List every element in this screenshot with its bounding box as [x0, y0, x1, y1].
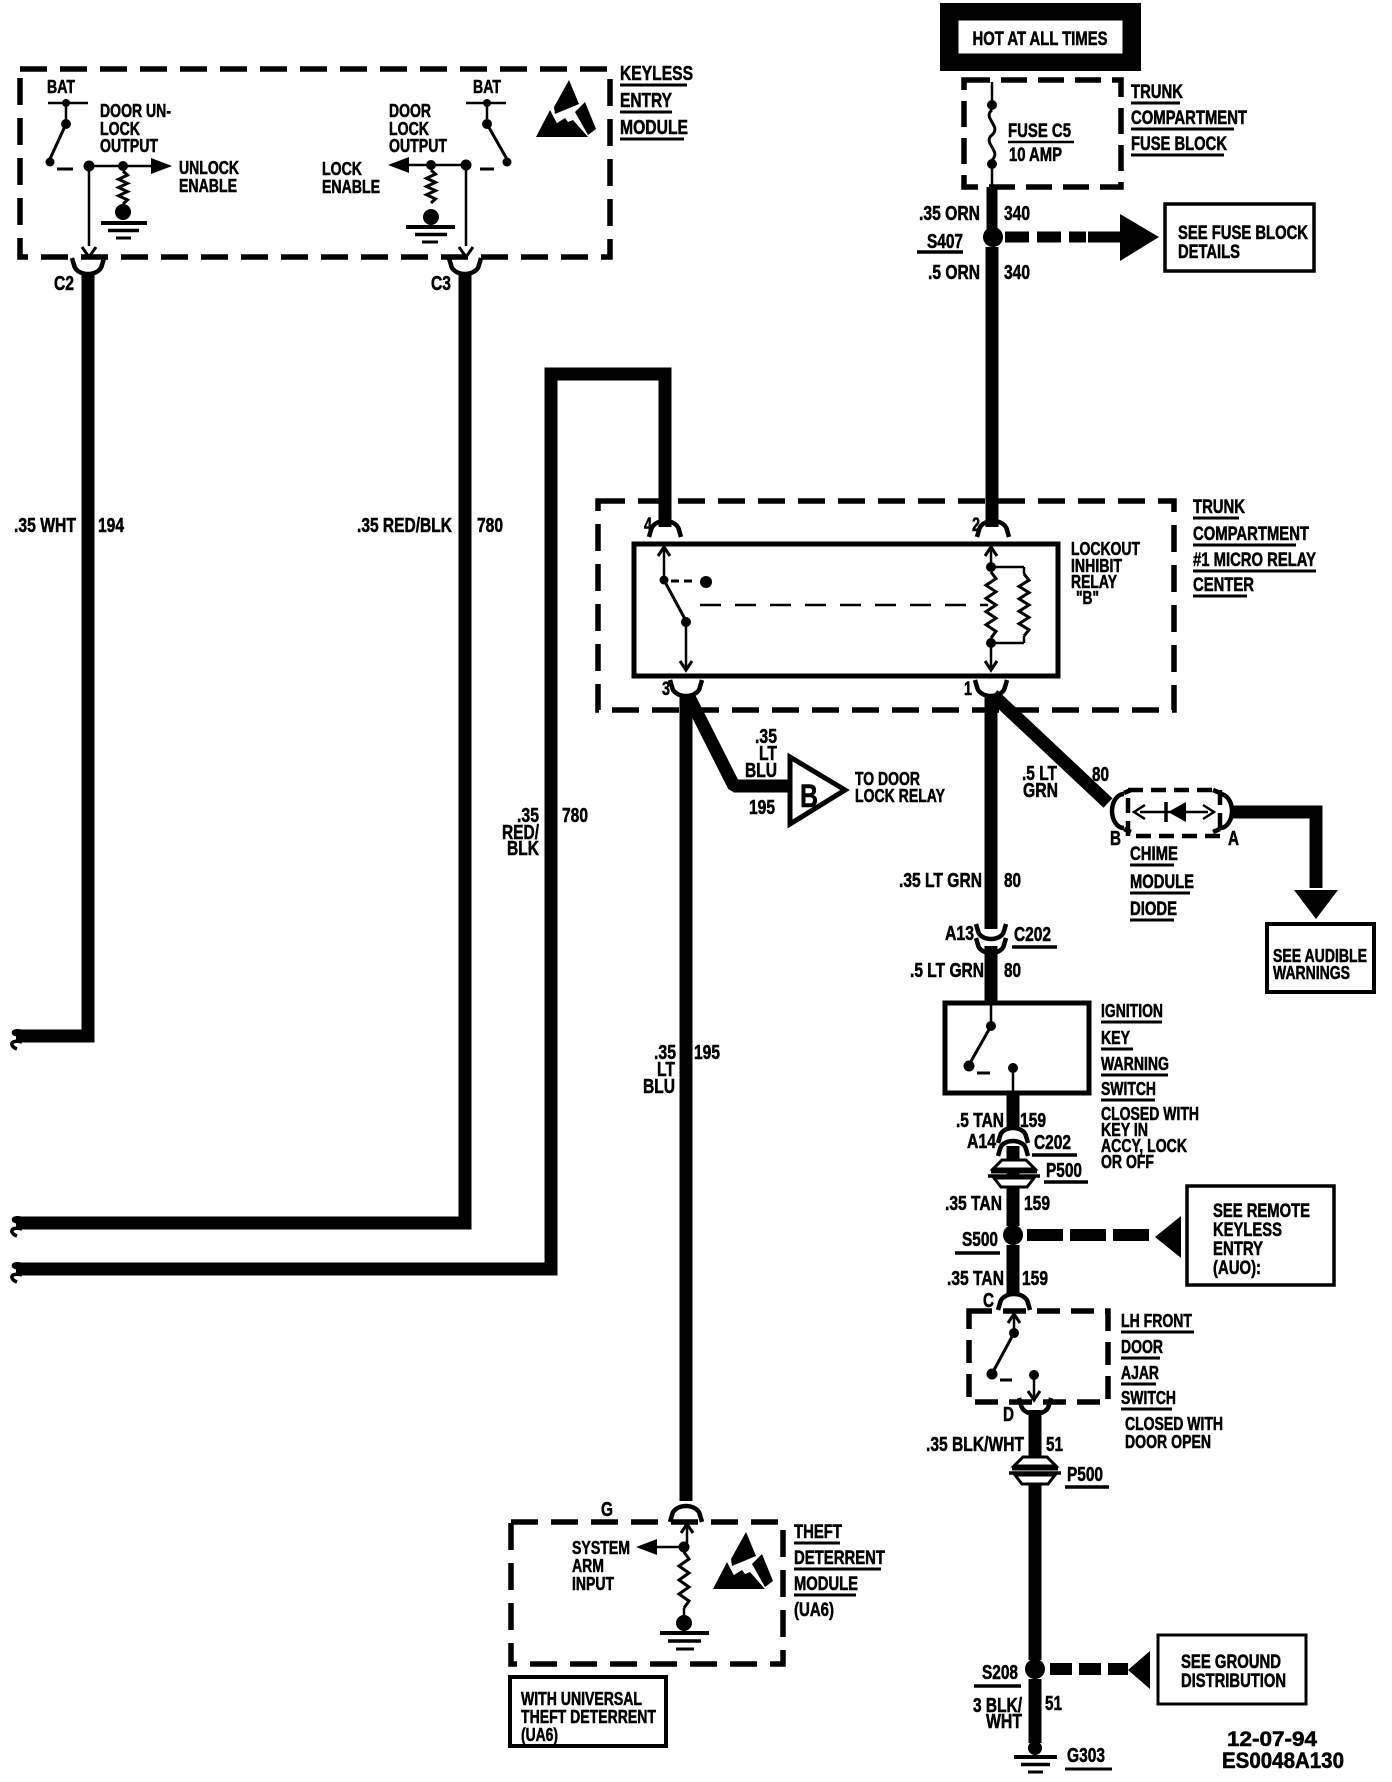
- label door lock output: [389, 101, 447, 156]
- ignition key warning switch: [964, 1005, 1019, 1091]
- wire 159 (switch to C202 A14): [1007, 1093, 1020, 1129]
- connector C202 A14: [967, 1128, 1077, 1156]
- svg-text:2: 2: [972, 515, 980, 536]
- svg-text:SEE FUSE BLOCK: SEE FUSE BLOCK: [1178, 223, 1308, 244]
- keyless entry module label: [620, 63, 693, 139]
- hot at all times box: [940, 3, 1141, 71]
- svg-text:DOOR OPEN: DOOR OPEN: [1125, 1432, 1211, 1452]
- svg-text:.5 LT GRN: .5 LT GRN: [910, 960, 984, 982]
- svg-text:4: 4: [644, 515, 652, 536]
- relay coil: [985, 547, 1029, 670]
- label .5 LT GRN 80: [910, 960, 1021, 982]
- relay pin 4 connector: [644, 515, 681, 537]
- svg-text:FUSE C5: FUSE C5: [1008, 121, 1071, 142]
- splice S500: [955, 1225, 1023, 1253]
- grommet P500 (upper): [988, 1160, 1088, 1187]
- label lockout inhibit relay B: [1071, 539, 1140, 608]
- label theft deterrent module UA6: [794, 1522, 885, 1621]
- wire 80 (pin 1 to chime diode): [993, 695, 1108, 803]
- label unlock enable: [179, 158, 239, 196]
- label .35 TAN 159 (above S500): [945, 1193, 1050, 1215]
- svg-text:B: B: [800, 778, 818, 814]
- trunk compartment fuse block box: [964, 80, 1121, 187]
- label closed with door open: [1125, 1414, 1223, 1452]
- label trunk compartment #1 micro relay center: [1193, 497, 1316, 596]
- label .35 TAN 159 (below S500): [947, 1268, 1048, 1290]
- chime diode connector A: [1213, 790, 1239, 850]
- svg-text:INPUT: INPUT: [572, 1574, 614, 1594]
- label ignition key warning switch: [1101, 1001, 1169, 1100]
- audible warnings arrow: [1294, 890, 1338, 919]
- chime module diode: [1134, 802, 1214, 822]
- off-page connector B triangle: [790, 757, 845, 824]
- svg-text:OR OFF: OR OFF: [1101, 1152, 1154, 1172]
- svg-text:DETAILS: DETAILS: [1178, 242, 1240, 263]
- svg-text:SEE REMOTE: SEE REMOTE: [1213, 1201, 1310, 1222]
- svg-text:WHT: WHT: [986, 1711, 1022, 1733]
- svg-text:TRUNK: TRUNK: [1193, 497, 1245, 518]
- svg-text:195: 195: [749, 797, 775, 819]
- label .35 RED/BLK 780: [357, 515, 503, 537]
- theft deterrent module internals: [636, 1524, 709, 1649]
- see audible warnings box: [1267, 924, 1374, 992]
- svg-text:80: 80: [1004, 870, 1021, 892]
- svg-text:FUSE BLOCK: FUSE BLOCK: [1131, 134, 1227, 155]
- connector D: [1003, 1398, 1051, 1426]
- svg-text:BLU: BLU: [643, 1076, 675, 1098]
- svg-text:MODULE: MODULE: [1130, 872, 1194, 893]
- svg-text:OUTPUT: OUTPUT: [100, 136, 158, 156]
- svg-text:SWITCH: SWITCH: [1101, 1079, 1156, 1099]
- see fuse block details box: [1165, 204, 1314, 271]
- connector C (door ajar): [983, 1290, 1030, 1312]
- svg-text:CLOSED WITH: CLOSED WITH: [1125, 1414, 1223, 1434]
- svg-text:A14: A14: [967, 1131, 997, 1153]
- relay actuator dashed link: [700, 604, 988, 607]
- splice S407: [917, 227, 1003, 253]
- label trunk compartment fuse block: [1131, 82, 1247, 155]
- svg-text:340: 340: [1004, 203, 1030, 225]
- svg-text:S407: S407: [927, 231, 963, 253]
- connector C202 A13: [945, 923, 1057, 953]
- svg-text:IGNITION: IGNITION: [1101, 1001, 1163, 1021]
- wire 80 (C202 to ignition switch): [985, 946, 998, 1002]
- svg-text:SYSTEM: SYSTEM: [572, 1538, 630, 1558]
- svg-text:B: B: [1110, 828, 1121, 850]
- svg-text:159: 159: [1024, 1193, 1050, 1215]
- svg-text:BLU: BLU: [745, 760, 777, 782]
- svg-text:ENABLE: ENABLE: [322, 177, 380, 197]
- svg-text:CENTER: CENTER: [1193, 575, 1254, 596]
- theft deterrent module box: [511, 1522, 783, 1664]
- svg-text:WARNING: WARNING: [1101, 1054, 1169, 1074]
- with universal theft deterrent box: [510, 1677, 666, 1746]
- wire node to C2: [82, 171, 96, 257]
- wire 780 (C3 to page edge): [12, 272, 465, 1236]
- svg-text:3: 3: [662, 679, 670, 700]
- wire 51 (P500 to S208): [1029, 1484, 1042, 1660]
- label fuse C5 10 amp: [1008, 121, 1074, 166]
- svg-text:DISTRIBUTION: DISTRIBUTION: [1181, 1671, 1286, 1692]
- ground (keyless module left): [101, 204, 147, 238]
- svg-text:ENTRY: ENTRY: [620, 90, 673, 112]
- wire 159 (A14 to S500): [1007, 1146, 1020, 1226]
- lockout inhibit relay outline: [634, 544, 1058, 676]
- label .5 LT GRN 80 (diagonal): [1022, 763, 1109, 802]
- wire 51 (S208 to G303): [1029, 1679, 1042, 1743]
- svg-text:G: G: [601, 1499, 613, 1521]
- label system arm input: [572, 1538, 630, 1594]
- svg-text:S208: S208: [982, 1662, 1018, 1684]
- svg-text:P500: P500: [1046, 1160, 1082, 1182]
- plate date and code: [1222, 1728, 1344, 1773]
- relay pin 3 connector: [662, 679, 702, 700]
- svg-text:159: 159: [1020, 1110, 1046, 1132]
- BAT terminal (unlock side): [47, 77, 88, 107]
- wire 159 (S500 to door ajar switch): [1007, 1245, 1020, 1296]
- svg-text:(AUO):: (AUO):: [1213, 1258, 1261, 1279]
- svg-text:195: 195: [694, 1042, 720, 1064]
- wire 51 (D to P500): [1029, 1410, 1042, 1460]
- svg-text:MODULE: MODULE: [620, 117, 688, 139]
- wire 195 (pin 3 to theft module): [680, 695, 693, 1501]
- svg-text:COMPARTMENT: COMPARTMENT: [1193, 524, 1309, 545]
- svg-text:DETERRENT: DETERRENT: [794, 1548, 885, 1569]
- svg-text:WITH UNIVERSAL: WITH UNIVERSAL: [521, 1689, 642, 1709]
- svg-text:BAT: BAT: [47, 77, 75, 97]
- svg-text:340: 340: [1004, 262, 1030, 284]
- svg-text:DOOR UN-: DOOR UN-: [100, 101, 171, 121]
- svg-text:ES0048A130: ES0048A130: [1222, 1748, 1344, 1773]
- svg-text:OUTPUT: OUTPUT: [389, 136, 447, 156]
- svg-text:KEYLESS: KEYLESS: [1213, 1220, 1282, 1241]
- label to door lock relay: [855, 769, 945, 806]
- node / unlock enable arrow: [84, 158, 173, 174]
- svg-text:(UA6): (UA6): [521, 1725, 558, 1745]
- svg-text:10 AMP: 10 AMP: [1009, 145, 1062, 166]
- svg-text:TRUNK: TRUNK: [1131, 82, 1183, 103]
- wire 80 (pin 1 to C202): [985, 695, 998, 929]
- svg-text:DIODE: DIODE: [1130, 899, 1177, 920]
- ignition key warning switch box: [945, 1003, 1089, 1093]
- svg-text:KEYLESS: KEYLESS: [620, 63, 693, 85]
- svg-text:.35 ORN: .35 ORN: [919, 203, 980, 225]
- switch SW-unlock (door unlock output): [46, 103, 74, 169]
- see ground distribution box: [1158, 1635, 1306, 1704]
- label .35 WHT 194: [14, 515, 125, 537]
- svg-text:G303: G303: [1067, 1745, 1105, 1767]
- svg-text:.35 TAN: .35 TAN: [945, 1193, 1002, 1215]
- label 3 BLK/WHT 51: [973, 1693, 1062, 1733]
- wire 780 (relay pin 4 to page edge): [12, 374, 665, 1282]
- svg-text:GRN: GRN: [1023, 780, 1058, 802]
- svg-text:80: 80: [1092, 764, 1109, 786]
- svg-text:AJAR: AJAR: [1121, 1363, 1159, 1383]
- see ground distribution arrow: [1050, 1651, 1150, 1689]
- label .35 LT BLU 195 (main): [643, 1042, 720, 1098]
- grommet P500 (lower): [1009, 1457, 1109, 1487]
- svg-text:THEFT: THEFT: [794, 1522, 842, 1543]
- connector G: [601, 1499, 702, 1522]
- see remote keyless entry arrow: [1027, 1216, 1181, 1258]
- svg-text:1: 1: [964, 679, 972, 700]
- svg-text:P500: P500: [1067, 1464, 1103, 1486]
- switch SW-lock (door lock output): [480, 103, 512, 169]
- wire node to C3: [459, 170, 473, 257]
- keyless entry module box: [20, 69, 610, 257]
- svg-text:SEE GROUND: SEE GROUND: [1181, 1652, 1281, 1673]
- svg-text:DOOR: DOOR: [389, 101, 431, 121]
- label door unlock output: [100, 101, 171, 156]
- svg-text:HOT AT ALL TIMES: HOT AT ALL TIMES: [973, 29, 1108, 50]
- wire 340 (S407 to relay pin 2): [986, 247, 999, 527]
- svg-text:LOCK: LOCK: [322, 159, 362, 179]
- wire 194 (C2 to page edge): [12, 272, 88, 1049]
- label chime module diode: [1130, 844, 1194, 920]
- svg-text:.35 BLK/WHT: .35 BLK/WHT: [926, 1434, 1024, 1456]
- svg-text:CHIME: CHIME: [1130, 844, 1178, 865]
- relay pin 2 connector: [972, 515, 1009, 537]
- svg-text:A13: A13: [945, 923, 974, 945]
- svg-text:ENTRY: ENTRY: [1213, 1239, 1263, 1260]
- ESD symbol (theft module): [713, 1532, 773, 1589]
- svg-text:194: 194: [98, 515, 125, 537]
- see fuse block details arrow: [1005, 214, 1159, 261]
- fuse C5: [987, 82, 997, 186]
- splice S208: [974, 1659, 1045, 1686]
- svg-text:"B": "B": [1076, 588, 1099, 608]
- svg-text:LH FRONT: LH FRONT: [1121, 1311, 1192, 1331]
- svg-text:BAT: BAT: [473, 77, 501, 97]
- label .35 RED/BLK 780 (second): [502, 805, 588, 860]
- label .5 TAN 159: [956, 1110, 1046, 1132]
- wire to audible warnings: [1233, 812, 1316, 888]
- relay pin 1 connector: [964, 679, 1007, 700]
- svg-text:LOCK RELAY: LOCK RELAY: [855, 786, 945, 806]
- svg-text:C3: C3: [431, 273, 451, 295]
- svg-text:ENABLE: ENABLE: [179, 176, 237, 196]
- svg-text:ARM: ARM: [572, 1556, 604, 1576]
- see remote keyless entry box: [1187, 1186, 1334, 1285]
- label lock enable: [322, 159, 380, 197]
- svg-text:BLK: BLK: [507, 838, 539, 860]
- svg-text:51: 51: [1045, 1693, 1062, 1715]
- wire 195 spur to door lock relay: [689, 697, 788, 786]
- svg-text:UNLOCK: UNLOCK: [179, 158, 239, 178]
- svg-text:MODULE: MODULE: [794, 1574, 858, 1595]
- svg-text:.35 WHT: .35 WHT: [14, 515, 76, 537]
- svg-text:THEFT DETERRENT: THEFT DETERRENT: [521, 1707, 656, 1727]
- svg-text:159: 159: [1022, 1268, 1048, 1290]
- svg-text:780: 780: [562, 805, 588, 827]
- svg-text:A: A: [1228, 828, 1239, 850]
- svg-text:C202: C202: [1014, 924, 1051, 946]
- LH front door ajar switch box: [969, 1311, 1108, 1402]
- svg-text:SWITCH: SWITCH: [1121, 1388, 1176, 1408]
- connector C2: [54, 258, 104, 295]
- wire 340 (fuse to S407): [987, 187, 998, 230]
- svg-text:KEY: KEY: [1101, 1028, 1130, 1048]
- svg-text:.5 ORN: .5 ORN: [928, 262, 980, 284]
- door ajar switch: [987, 1314, 1041, 1400]
- svg-text:.35 RED/BLK: .35 RED/BLK: [357, 515, 452, 537]
- resistor (lock pull-down): [427, 170, 436, 203]
- svg-text:#1 MICRO RELAY: #1 MICRO RELAY: [1193, 550, 1316, 571]
- label .5 ORN 340: [928, 262, 1030, 284]
- chime module diode box: [1128, 790, 1220, 836]
- label .35 LT BLU 195 (spur): [745, 726, 777, 819]
- svg-text:51: 51: [1046, 1434, 1063, 1456]
- chime diode connector B: [1110, 790, 1131, 850]
- svg-text:(UA6): (UA6): [794, 1600, 834, 1621]
- node / lock enable arrow: [388, 157, 472, 173]
- resistor (unlock pull-down): [119, 171, 128, 204]
- svg-text:.35 TAN: .35 TAN: [947, 1268, 1004, 1290]
- svg-text:.5 TAN: .5 TAN: [956, 1110, 1004, 1132]
- svg-text:DOOR: DOOR: [1121, 1337, 1163, 1357]
- label .35 ORN 340: [919, 203, 1030, 225]
- svg-text:C202: C202: [1034, 1132, 1071, 1154]
- relay switch contacts: [658, 547, 712, 670]
- ground G303: [1014, 1741, 1112, 1772]
- label closed with key in accy lock or off: [1101, 1104, 1199, 1172]
- svg-text:80: 80: [1004, 960, 1021, 982]
- label .35 BLK/WHT 51: [926, 1434, 1063, 1456]
- label LH front door ajar switch: [1121, 1311, 1194, 1409]
- BAT terminal (lock side): [466, 77, 506, 107]
- ground (keyless module right): [406, 209, 455, 242]
- svg-text:.35 LT GRN: .35 LT GRN: [899, 870, 982, 892]
- ESD symbol (keyless module): [536, 80, 596, 137]
- micro relay center box: [598, 501, 1174, 710]
- svg-text:WARNINGS: WARNINGS: [1273, 963, 1350, 983]
- label .35 LT GRN 80: [899, 870, 1021, 892]
- svg-text:D: D: [1003, 1404, 1014, 1426]
- svg-text:S500: S500: [962, 1229, 998, 1251]
- svg-text:C2: C2: [54, 273, 74, 295]
- svg-text:COMPARTMENT: COMPARTMENT: [1131, 108, 1247, 129]
- connector C3: [431, 258, 481, 295]
- svg-text:780: 780: [477, 515, 503, 537]
